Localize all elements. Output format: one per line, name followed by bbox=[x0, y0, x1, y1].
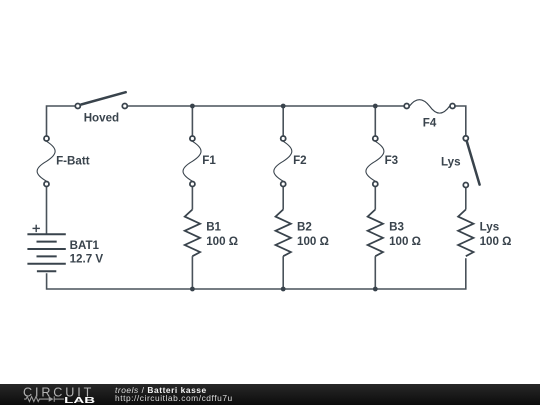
svg-text:B3: B3 bbox=[389, 221, 404, 234]
svg-text:100 Ω: 100 Ω bbox=[297, 235, 329, 248]
svg-text:Lys: Lys bbox=[441, 156, 461, 169]
svg-text:F1: F1 bbox=[202, 154, 216, 167]
svg-text:BAT1: BAT1 bbox=[70, 239, 100, 252]
svg-text:LAB: LAB bbox=[64, 395, 95, 404]
svg-text:F-Batt: F-Batt bbox=[56, 155, 90, 168]
svg-text:F2: F2 bbox=[293, 154, 307, 167]
svg-text:100 Ω: 100 Ω bbox=[206, 235, 238, 248]
svg-text:Lys: Lys bbox=[480, 221, 500, 234]
svg-text:B1: B1 bbox=[206, 221, 221, 234]
svg-text:100 Ω: 100 Ω bbox=[389, 235, 421, 248]
svg-text:Hoved: Hoved bbox=[84, 112, 119, 125]
svg-text:F4: F4 bbox=[423, 117, 437, 130]
svg-text:12.7 V: 12.7 V bbox=[70, 252, 104, 265]
svg-text:F3: F3 bbox=[385, 154, 399, 167]
svg-text:100 Ω: 100 Ω bbox=[480, 235, 512, 248]
svg-text:B2: B2 bbox=[297, 221, 312, 234]
